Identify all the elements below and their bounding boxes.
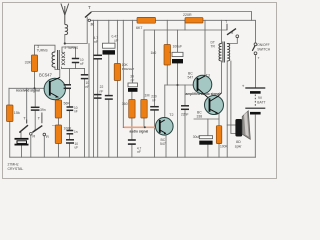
capacitor 220nF <box>150 107 159 110</box>
wire emitter cap chain bottom <box>69 143 71 157</box>
svg-text:R: R <box>46 134 49 139</box>
svg-text:15k: 15k <box>14 111 20 115</box>
svg-text:8Ω: 8Ω <box>236 140 241 144</box>
wire OT right bottom to speaker <box>226 61 228 157</box>
label 27MHz CRYSTAL <box>8 162 24 171</box>
wire long vertical A <box>88 44 90 158</box>
wire c5 to R360 <box>131 92 133 100</box>
capacitor tank c1 <box>72 59 79 63</box>
wire node to T3 base <box>165 84 198 86</box>
crystal X1 27MHz <box>15 139 29 145</box>
wire 4n7 bottom <box>131 144 133 157</box>
label 9V BATT <box>257 96 265 104</box>
wire R1 bottom to T1 base <box>34 72 36 89</box>
wire 30uF bottom <box>207 145 209 158</box>
wire emitter cap chain mid <box>69 111 71 131</box>
wire T4 emitter node <box>194 118 219 120</box>
label 0.47uF <box>112 35 119 43</box>
capacitor c2b <box>64 85 71 89</box>
border frame <box>3 3 277 179</box>
svg-text:547: 547 <box>188 76 194 80</box>
svg-text:BC547: BC547 <box>39 73 52 78</box>
wire rail3 <box>144 29 227 31</box>
svg-text:T2: T2 <box>169 113 173 117</box>
svg-text:nF: nF <box>137 150 141 154</box>
svg-text:spkr: spkr <box>235 145 243 149</box>
resistor 360 <box>122 100 135 119</box>
wire rail3 down to R 1M <box>143 30 145 100</box>
transformer TR1 3/2 turns <box>52 50 65 70</box>
resistor R3 emitter2 <box>55 125 72 144</box>
wire 39n cap top <box>34 88 36 107</box>
switch ON/OFF <box>252 43 257 55</box>
label BC547 T2 <box>160 138 166 146</box>
svg-text:R: R <box>32 133 35 138</box>
wire switch S2 T contact drop <box>26 88 28 123</box>
wire left drop to 15k <box>8 88 10 105</box>
wire 22nF2 hang <box>184 85 186 106</box>
label OT <box>211 40 216 48</box>
wire 1k0 bottom to node <box>166 65 168 85</box>
preset 10K <box>114 63 134 81</box>
wire 100K top <box>218 114 220 126</box>
label c5b <box>75 142 79 150</box>
capacitor 30uF <box>199 136 212 145</box>
wire T3 collector up <box>204 20 206 76</box>
wire c5 chain top <box>132 20 134 83</box>
svg-text:1k0: 1k0 <box>151 51 157 55</box>
wire OT second lead to speaker bottom <box>231 61 236 134</box>
svg-text:338: 338 <box>197 115 203 119</box>
svg-text:30uF: 30uF <box>193 135 201 139</box>
wire 100K bottom <box>218 144 220 158</box>
wire 220nF bottom <box>154 110 156 157</box>
svg-text:+: + <box>169 50 171 54</box>
transformer OT <box>219 42 230 63</box>
capacitor 4n7 bottom <box>128 140 136 144</box>
resistor 220R <box>183 13 203 23</box>
capacitor c4 <box>67 131 74 134</box>
wire T4 collector to transformer <box>221 61 223 93</box>
wire crystal to switch S2 pole <box>20 132 22 138</box>
capacitor c5 electrolytic small <box>128 75 138 92</box>
svg-text:220R: 220R <box>183 13 192 17</box>
label BC338 <box>197 110 203 118</box>
wire base node horizontal <box>9 87 50 89</box>
capacitor 39n <box>31 107 40 110</box>
wire T1 emitter to R2 <box>57 97 59 100</box>
svg-text:27MHz: 27MHz <box>8 162 19 166</box>
capacitor c5b <box>66 140 74 143</box>
capacitor 100uF electrolytic <box>169 50 183 63</box>
audio wire highlight <box>124 126 157 128</box>
svg-text:2 TURNS: 2 TURNS <box>65 46 79 50</box>
capacitor 0.47uF poly <box>103 43 116 54</box>
wire emitter cap chain top <box>69 69 71 85</box>
label 3 TURNS <box>37 45 48 52</box>
label speaker <box>235 140 243 148</box>
wire 0.47uF to 22nF <box>108 55 110 96</box>
wire 4.7nF chain <box>97 20 99 55</box>
antenna <box>61 4 69 35</box>
wire bottom ground rail <box>10 156 256 158</box>
svg-text:39n: 39n <box>40 108 46 112</box>
svg-text:+: + <box>242 83 245 88</box>
svg-text:T3: T3 <box>206 73 210 77</box>
svg-text:T: T <box>88 5 91 10</box>
wire switch S4 to OT right top <box>227 38 237 44</box>
wire 22nF bottom to ground <box>108 99 110 157</box>
wire 30uF hang <box>207 119 209 136</box>
wire T4 collector diag <box>218 93 222 97</box>
wire 15k bottom to ground <box>9 122 11 158</box>
switch S4 T/R <box>225 20 239 37</box>
label c1 <box>80 58 84 66</box>
wire tank cap bottom <box>75 63 77 69</box>
capacitor 22nF2 <box>181 106 189 110</box>
wire 39n bottom to switch S3 <box>33 110 35 132</box>
resistor R2 emitter <box>55 100 70 118</box>
resistor 100K <box>216 126 228 149</box>
svg-text:1n: 1n <box>74 130 78 134</box>
svg-text:T: T <box>258 56 260 60</box>
svg-text:nF: nF <box>86 85 90 89</box>
wire preset bottom to ground <box>116 81 118 158</box>
svg-text:ON/OFF: ON/OFF <box>257 43 269 47</box>
wire T2 collector up <box>164 85 166 120</box>
switch S3 T/R <box>32 113 49 140</box>
wire secondary top to tank cap <box>62 47 76 58</box>
transistor T1 BC547 <box>44 77 65 99</box>
svg-text:uF: uF <box>75 146 79 150</box>
label c4 <box>74 130 78 134</box>
svg-text:received signal: received signal <box>16 89 40 93</box>
speaker <box>235 111 250 140</box>
svg-text:22nF: 22nF <box>181 113 189 117</box>
svg-text:56R: 56R <box>64 101 71 105</box>
label c3 <box>74 106 78 114</box>
wire emitter cap chain seg2 <box>69 88 71 107</box>
svg-text:BATT: BATT <box>257 100 265 104</box>
label BC547 T3 <box>188 71 194 79</box>
svg-text:4.7: 4.7 <box>94 36 99 40</box>
battery 9V <box>242 83 265 113</box>
wire antenna to switch S1 <box>65 18 87 44</box>
resistor 1M <box>141 93 150 118</box>
svg-text:CRYSTAL: CRYSTAL <box>8 167 24 171</box>
transistor T2 BC547 <box>156 118 174 136</box>
svg-text:µF: µF <box>115 39 119 43</box>
svg-text:amplified audio signal: amplified audio signal <box>186 92 221 96</box>
label c2 <box>86 81 90 89</box>
label 220nF <box>151 94 157 102</box>
wire 220R drop to rail3 <box>184 20 186 30</box>
svg-text:audio signal: audio signal <box>130 129 149 133</box>
svg-text:33K: 33K <box>25 61 32 65</box>
svg-text:nF: nF <box>94 40 98 44</box>
wire switch S2 R contact to ground <box>30 135 32 157</box>
wire speaker top tap <box>227 124 235 126</box>
capacitor 22nF <box>105 96 113 100</box>
label ON/OFF SWITCH <box>257 43 271 51</box>
switch S1 T/R near antenna <box>85 5 95 27</box>
resistor 33K <box>25 55 38 72</box>
transistor T4 BC338 <box>205 96 224 115</box>
svg-text:nF: nF <box>131 78 135 82</box>
wire 22nF2 bottom <box>184 109 186 157</box>
svg-text:360: 360 <box>122 102 128 106</box>
wire R3 bottom to ground <box>57 144 59 158</box>
wire R 1M bottom to audio node <box>143 118 145 127</box>
svg-text:PRESET: PRESET <box>122 67 134 71</box>
wire switch S3 R contact to ground <box>43 136 45 157</box>
transistor T3 BC547 <box>193 75 212 99</box>
label 22nF <box>99 85 103 93</box>
capacitor c3 <box>67 107 74 110</box>
svg-text:TURNS: TURNS <box>37 48 48 52</box>
capacitor c4b on 4.7n chain <box>94 95 102 99</box>
wire top rail1 <box>92 12 252 21</box>
svg-text:R: R <box>231 31 234 35</box>
wire transformer OT left top <box>221 20 223 43</box>
svg-text:nF: nF <box>99 89 103 93</box>
wire long vertical B <box>93 20 95 157</box>
resistor 15k <box>7 105 21 122</box>
wire audio line to T2 base <box>123 126 160 128</box>
resistor 1k0 <box>151 45 171 66</box>
wire R1 33K top to transformer primary <box>35 45 56 55</box>
svg-text:nF: nF <box>74 110 78 114</box>
wire top rail2 <box>91 20 256 43</box>
wire battery to ground <box>254 115 256 157</box>
wire 1k0 top feed <box>166 20 168 44</box>
svg-text:nF: nF <box>152 98 156 102</box>
wire cap c2 bottom to ground <box>84 79 86 157</box>
capacitor 4.7nF <box>94 55 103 59</box>
wire preset chain <box>116 20 118 63</box>
wire switch to battery <box>255 55 257 88</box>
wire transformer secondary bottom <box>62 67 85 69</box>
wire cap c2 chain <box>84 69 86 75</box>
svg-text:100uF: 100uF <box>173 44 183 48</box>
wire spare vertical <box>122 20 124 127</box>
wire 220nF chain top <box>154 30 156 107</box>
svg-text:TR: TR <box>211 44 216 48</box>
capacitor c2 <box>81 75 88 79</box>
svg-text:6K7: 6K7 <box>136 26 142 30</box>
svg-text:547: 547 <box>160 142 166 146</box>
wire 0.47uF chain top <box>108 20 110 43</box>
switch S2 T/R <box>20 115 36 138</box>
wire 100uF bottom to node <box>177 63 179 157</box>
junction dots <box>34 42 179 128</box>
svg-text:nF: nF <box>80 62 84 66</box>
wire emitter cap chain mid2 <box>69 134 71 140</box>
wire audio node to 4n7 <box>131 127 133 140</box>
label 4n7 <box>137 146 142 154</box>
wire R360 to audio node <box>131 118 133 127</box>
wire 100uF top <box>177 30 179 52</box>
label 4.7nF <box>94 36 99 44</box>
resistor 6K7 <box>136 17 156 30</box>
wire transformer primary bottom to T1 collector <box>55 67 60 77</box>
cyan mark <box>52 125 58 127</box>
wire crystal bottom <box>21 145 23 158</box>
svg-text:SWITCH: SWITCH <box>257 47 271 51</box>
wire R2 to R3 <box>57 118 59 125</box>
wire T2 emitter to ground <box>165 134 167 158</box>
svg-text:100K: 100K <box>220 145 229 149</box>
svg-text:1M: 1M <box>145 93 150 97</box>
wire 4.7nF bottom <box>97 59 99 157</box>
